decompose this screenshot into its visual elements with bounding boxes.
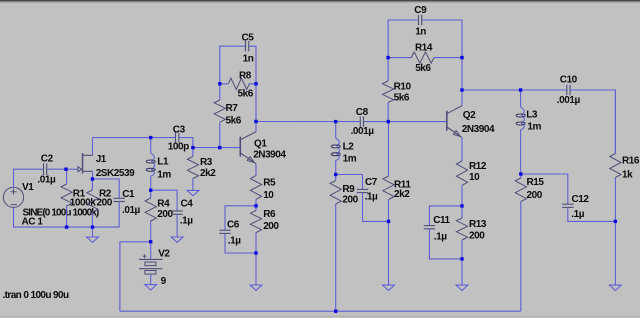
svg-text:C6: C6	[227, 220, 240, 231]
decorative bottom window edge	[0, 316, 640, 318]
wire C7 bottom	[363, 193, 389, 222]
wire C9 right leg	[422, 20, 462, 58]
capacitor C3	[176, 132, 179, 142]
svg-text:.1µ: .1µ	[571, 209, 584, 220]
node R14 right junction	[460, 56, 463, 59]
node R7 bottom junction	[218, 146, 221, 149]
wire V1 bottom rail	[14, 208, 120, 228]
svg-text:200: 200	[157, 209, 173, 220]
svg-text:200: 200	[342, 195, 358, 206]
svg-text:1n: 1n	[243, 54, 254, 65]
wire to C4	[151, 190, 177, 211]
wire drain row	[93, 137, 176, 139]
node R12 R13 C11 junction	[460, 204, 463, 207]
node ground junction bottom rail	[91, 225, 94, 228]
wire source node to C1	[92, 179, 119, 198]
svg-text:R7: R7	[226, 103, 239, 114]
decorative top window edge	[0, 0, 640, 3]
transistor Q1	[240, 132, 256, 164]
inductor L3	[516, 90, 525, 174]
svg-text:R8: R8	[239, 71, 252, 82]
node gate J1 junction	[64, 168, 67, 171]
svg-text:.1µ: .1µ	[180, 215, 193, 226]
resistor R4	[145, 190, 156, 242]
resistor R3	[187, 148, 198, 191]
node R16 C12 junction	[614, 220, 617, 223]
resistor R6	[250, 206, 261, 253]
svg-text:200: 200	[263, 221, 279, 232]
node base wire R3 junction	[191, 146, 194, 149]
node L2 top junction	[334, 120, 337, 123]
ground below R13	[456, 259, 468, 291]
capacitor C1	[114, 198, 125, 201]
svg-text:R10: R10	[394, 82, 412, 93]
wire Q1 collector lead	[255, 122, 257, 132]
resistor R5	[250, 176, 261, 206]
resistor R15	[515, 174, 526, 311]
node L1 R4 C4 junction	[149, 189, 152, 192]
svg-text:.tran 0 100u 90u: .tran 0 100u 90u	[3, 290, 69, 301]
node R8 left junction	[218, 82, 221, 85]
ground below R16	[610, 221, 622, 290]
wire C9 left leg	[388, 20, 418, 58]
wire J1 source down	[92, 171, 94, 179]
resistor R10	[383, 58, 394, 122]
svg-text:10: 10	[469, 172, 480, 183]
resistor R7	[214, 84, 225, 148]
wire Q1 base row	[193, 147, 240, 149]
svg-text:R14: R14	[415, 43, 433, 54]
wire C2 to gate node	[47, 168, 66, 170]
svg-text:L2: L2	[343, 142, 355, 153]
wire Q1 emitter lead	[255, 164, 257, 176]
resistor R16	[610, 90, 621, 221]
capacitor C11	[424, 226, 435, 229]
node L3 top junction	[519, 88, 522, 91]
svg-text:1m: 1m	[527, 122, 541, 133]
svg-text:.01µ: .01µ	[37, 174, 56, 185]
ground input rail	[87, 227, 99, 242]
inductor L1	[146, 138, 155, 191]
svg-text:2N3904: 2N3904	[253, 149, 286, 160]
svg-text:C8: C8	[356, 107, 369, 118]
node R1 bottom junction	[65, 225, 68, 228]
node Q2 collector junction	[460, 88, 463, 91]
svg-text:200: 200	[469, 231, 485, 242]
wire C1 bottom	[118, 202, 120, 228]
voltage source V1	[3, 187, 23, 207]
wire C6 bottom loop	[225, 233, 256, 253]
node R4 V2 junction	[149, 240, 152, 243]
svg-text:L3: L3	[526, 110, 538, 121]
svg-text:R13: R13	[469, 219, 487, 230]
svg-text:C9: C9	[414, 5, 427, 16]
inductor L2	[331, 122, 340, 175]
svg-text:AC 1: AC 1	[22, 217, 44, 228]
svg-text:1n: 1n	[415, 26, 426, 37]
wire C12 top	[521, 174, 568, 204]
wire Q1 collector to C8	[256, 121, 360, 123]
capacitor C12	[562, 204, 573, 207]
svg-text:5k6: 5k6	[238, 89, 254, 100]
svg-text:C1: C1	[122, 189, 135, 200]
svg-text:.001µ: .001µ	[557, 95, 581, 106]
transistor J1 (JFET 2SK2539)	[78, 153, 93, 174]
svg-text:R6: R6	[263, 209, 276, 220]
svg-text:C11: C11	[433, 215, 450, 226]
svg-text:R5: R5	[263, 178, 276, 189]
wire C3 to base corner	[179, 138, 193, 148]
svg-text:R9: R9	[342, 184, 355, 195]
wire C11 left loop	[429, 206, 462, 226]
svg-text:J1: J1	[96, 154, 107, 165]
svg-text:C4: C4	[181, 199, 194, 210]
wire C5 right leg	[249, 46, 256, 84]
svg-text:V1: V1	[22, 182, 34, 193]
svg-text:9: 9	[161, 276, 167, 287]
svg-text:C7: C7	[365, 177, 378, 188]
transistor Q2	[447, 106, 462, 138]
resistor R14	[388, 52, 462, 63]
svg-text:R4: R4	[157, 199, 170, 210]
svg-text:.01µ: .01µ	[122, 205, 141, 216]
capacitor C7	[357, 189, 368, 192]
node C8 R10 R11 junction	[387, 120, 390, 123]
wire Q2 collector column	[461, 58, 463, 90]
capacitor C9	[419, 15, 422, 25]
ground below V2	[145, 274, 157, 290]
capacitor C2	[44, 163, 47, 175]
svg-text:2k2: 2k2	[394, 189, 410, 200]
wire Q2 collector lead	[461, 90, 463, 106]
capacitor C4	[171, 211, 182, 214]
wire Q1 collector column	[255, 84, 257, 122]
wire C10 to R16	[570, 90, 615, 154]
svg-text:.1µ: .1µ	[228, 236, 241, 247]
wire C6 left loop	[225, 206, 256, 230]
svg-text:Q1: Q1	[254, 138, 267, 149]
wire C5 left leg	[220, 46, 245, 84]
node R8 right junction	[254, 82, 257, 85]
capacitor C10	[567, 85, 570, 95]
svg-text:R15: R15	[527, 177, 545, 188]
ground below R11	[383, 221, 395, 290]
node bottom bus junction	[334, 310, 337, 313]
node R5 R6 C6 junction	[254, 204, 257, 207]
wire C11 bottom loop	[429, 229, 462, 259]
svg-text:1k: 1k	[622, 170, 633, 181]
node R13 bottom junction	[460, 257, 463, 260]
node R14 left junction	[386, 56, 389, 59]
svg-text:10: 10	[263, 190, 274, 201]
svg-text:5k6: 5k6	[394, 93, 410, 104]
wire C12 bottom	[568, 207, 616, 221]
svg-text:R3: R3	[200, 157, 213, 168]
resistor R2	[87, 179, 98, 227]
wire J1 drain up	[92, 138, 94, 156]
resistor R1	[61, 169, 72, 227]
ground below C4	[171, 214, 183, 242]
wire bottom bus	[120, 310, 521, 312]
svg-text:V2: V2	[158, 249, 170, 260]
node R11 C7 junction	[387, 220, 390, 223]
svg-text:200: 200	[527, 190, 543, 201]
svg-text:C2: C2	[41, 154, 54, 165]
svg-text:5k6: 5k6	[415, 63, 431, 74]
wire supply loop to bottom bus	[120, 242, 151, 311]
battery V2	[139, 242, 162, 274]
svg-text:C12: C12	[572, 194, 590, 205]
svg-text:1m: 1m	[343, 153, 357, 164]
svg-text:L1: L1	[157, 157, 169, 168]
capacitor C8	[360, 116, 363, 126]
capacitor C5	[246, 41, 249, 51]
svg-text:C3: C3	[173, 125, 186, 136]
svg-text:100p: 100p	[168, 142, 189, 153]
capacitor C6	[219, 230, 230, 233]
wire V1 top to C2	[14, 169, 44, 188]
resistor R8	[220, 78, 256, 89]
node L3 R15 C12 junction	[519, 172, 522, 175]
wire C8 to Q2 base	[364, 121, 446, 123]
resistor R9	[330, 175, 341, 312]
resistor R13	[456, 206, 467, 259]
svg-text:.1µ: .1µ	[434, 231, 447, 242]
wire gate lead	[66, 168, 78, 170]
svg-text:.001µ: .001µ	[351, 126, 375, 137]
ground below R6	[250, 253, 262, 290]
ground below R3	[187, 190, 199, 196]
wire Q2 collector row	[462, 89, 567, 91]
resistor R12	[456, 161, 467, 206]
svg-text:Q2: Q2	[463, 110, 476, 121]
svg-text:2k2: 2k2	[200, 168, 216, 179]
wire Q2 emitter lead	[461, 138, 463, 161]
node Q1 collector junction	[254, 120, 257, 123]
svg-text:C5: C5	[242, 32, 255, 43]
svg-text:R12: R12	[469, 161, 487, 172]
svg-text:5k6: 5k6	[226, 116, 242, 127]
svg-text:R16: R16	[622, 156, 640, 167]
svg-text:C10: C10	[560, 75, 578, 86]
node R6 bottom junction	[254, 251, 257, 254]
resistor R11	[383, 122, 394, 222]
svg-text:1m: 1m	[157, 169, 171, 180]
svg-text:.1µ: .1µ	[365, 191, 378, 202]
svg-text:200: 200	[97, 198, 113, 209]
node J1 source junction	[91, 177, 94, 180]
node L2 R9 C7 junction	[334, 173, 337, 176]
wire C7 top	[336, 175, 363, 190]
svg-text:2SK2539: 2SK2539	[96, 168, 135, 179]
node drain L1 junction	[149, 136, 152, 139]
svg-text:2N3904: 2N3904	[462, 124, 495, 135]
